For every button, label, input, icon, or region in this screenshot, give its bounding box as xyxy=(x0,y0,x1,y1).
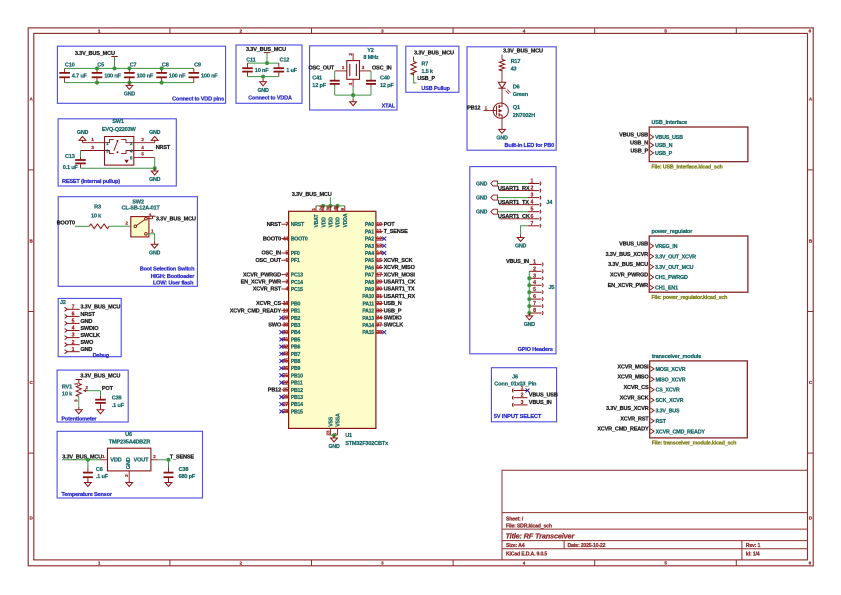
MCU pin 33 PA12 xyxy=(376,310,383,312)
svg-text:14: 14 xyxy=(376,251,382,257)
svg-text:3.3V_BUS_MCU: 3.3V_BUS_MCU xyxy=(80,374,120,380)
svg-text:4.7 uF: 4.7 uF xyxy=(72,74,88,80)
svg-text:XCVR_PWRGD: XCVR_PWRGD xyxy=(610,273,648,279)
svg-text:.1 uF: .1 uF xyxy=(96,474,109,480)
J2 pin 3 xyxy=(65,336,68,340)
svg-text:39: 39 xyxy=(283,323,289,329)
svg-text:PA1: PA1 xyxy=(365,229,374,235)
wire bottom rail (VDDA) xyxy=(248,76,279,78)
svg-text:PC14: PC14 xyxy=(291,280,303,286)
svg-text:4: 4 xyxy=(72,326,75,332)
wire MCU bottom gnd xyxy=(330,434,337,436)
svg-text:29: 29 xyxy=(376,280,382,286)
annotation box: Connect to VDDA xyxy=(236,45,302,103)
junction dot (XTAL) xyxy=(351,93,355,97)
svg-text:USB_P: USB_P xyxy=(655,151,673,157)
svg-text:PF1: PF1 xyxy=(291,258,300,264)
capacitor C41 xyxy=(334,79,336,80)
MCU pin 22 PB11 xyxy=(281,382,288,384)
sheet pin MOSI_XCVR xyxy=(651,367,655,372)
svg-text:C40: C40 xyxy=(380,75,390,81)
svg-text:HIGH: Bootloader: HIGH: Bootloader xyxy=(151,274,196,280)
svg-text:VREG_IN: VREG_IN xyxy=(655,244,678,250)
wire top rail xyxy=(65,67,194,69)
svg-text:USB_P: USB_P xyxy=(417,76,435,82)
J2 pin 6 xyxy=(65,314,68,318)
svg-text:transceiver_module: transceiver_module xyxy=(652,354,701,360)
wire crystal pin4 to rail xyxy=(352,87,354,95)
global label GND (J4 pin 5) xyxy=(491,209,498,214)
capacitor C6 xyxy=(87,460,89,468)
svg-text:XCVR_RST: XCVR_RST xyxy=(253,287,282,293)
svg-text:MISO_XCVR: MISO_XCVR xyxy=(656,377,686,383)
J4 pin 1 xyxy=(528,183,540,185)
svg-text:Green: Green xyxy=(513,92,529,98)
svg-text:100 nF: 100 nF xyxy=(169,74,186,80)
svg-text:41: 41 xyxy=(283,337,289,343)
MCU pin 45 PB8 xyxy=(281,360,288,362)
sheet pin USB_P xyxy=(650,151,654,156)
svg-text:PB7: PB7 xyxy=(291,352,301,358)
svg-text:GND: GND xyxy=(515,244,527,250)
svg-text:GND: GND xyxy=(258,88,270,94)
crystal Y2 xyxy=(347,61,360,80)
svg-text:GND: GND xyxy=(149,177,161,183)
svg-text:36: 36 xyxy=(326,205,332,210)
svg-text:PA12: PA12 xyxy=(362,309,374,315)
svg-text:XCVR_MOSI: XCVR_MOSI xyxy=(384,272,416,278)
svg-text:2: 2 xyxy=(521,393,524,399)
svg-text:GND: GND xyxy=(124,92,136,98)
svg-text:26: 26 xyxy=(283,395,289,401)
MCU bottom pin VSSA 8 xyxy=(337,428,339,435)
svg-text:40: 40 xyxy=(283,330,289,336)
MCU pin 32 PA11 xyxy=(376,302,383,304)
wire 3.3V to rail xyxy=(114,57,116,69)
crystal pin 4 xyxy=(352,79,354,87)
svg-text:XCVR_CMD_READY: XCVR_CMD_READY xyxy=(230,308,282,314)
MCU pin 26 PB13 xyxy=(281,396,288,398)
ground (C38) xyxy=(168,480,170,483)
MCU pin 41 PB5 xyxy=(281,338,288,340)
J2 pin 5 xyxy=(65,321,68,325)
svg-text:XCVR_CS: XCVR_CS xyxy=(256,301,281,307)
sheet pin MISO_XCVR xyxy=(651,377,655,382)
capacitor C8 xyxy=(161,68,163,73)
no-connect J6 pin1 xyxy=(526,389,530,393)
svg-text:2: 2 xyxy=(531,186,534,192)
svg-text:12 pF: 12 pF xyxy=(312,83,326,89)
svg-text:VDD: VDD xyxy=(329,217,335,228)
svg-text:Connect to VDDA: Connect to VDDA xyxy=(248,95,292,101)
title block xyxy=(502,470,808,560)
svg-text:SWO: SWO xyxy=(80,340,94,346)
svg-text:5V INPUT SELECT: 5V INPUT SELECT xyxy=(494,414,542,420)
svg-text:BOOT0: BOOT0 xyxy=(291,237,308,243)
svg-text:NRST: NRST xyxy=(291,222,305,228)
sheet pin CS_XCVR xyxy=(651,387,655,392)
wire MCU top power rail xyxy=(329,197,331,206)
svg-text:7: 7 xyxy=(531,221,534,227)
sheet pin SCK_XCVR xyxy=(651,398,655,403)
svg-text:SWDIO: SWDIO xyxy=(384,316,403,322)
svg-text:USB_N: USB_N xyxy=(630,141,648,147)
MCU pin 37 PA14 xyxy=(376,324,383,326)
wire R17 to LED xyxy=(501,72,503,82)
svg-text:7: 7 xyxy=(72,304,75,310)
crystal pin 2 xyxy=(352,53,354,60)
MCU pin 5 PF0 xyxy=(281,252,288,254)
MCU pin 38 PA15 xyxy=(376,331,383,333)
ground (XTAL) xyxy=(352,95,354,99)
svg-text:STM32F302CBTx: STM32F302CBTx xyxy=(345,441,389,447)
svg-text:10: 10 xyxy=(376,222,382,228)
SW1 pin 4 xyxy=(134,150,153,152)
U6 pin 1 xyxy=(101,459,108,461)
svg-text:XCVR_MOSI: XCVR_MOSI xyxy=(617,364,649,370)
J5 pin 2 xyxy=(529,270,541,272)
svg-text:15: 15 xyxy=(376,258,382,264)
svg-text:C12: C12 xyxy=(280,57,290,63)
svg-text:PA5: PA5 xyxy=(365,258,374,264)
svg-text:VDD: VDD xyxy=(321,217,327,228)
svg-text:46: 46 xyxy=(283,366,289,372)
svg-text:.1 uF: .1 uF xyxy=(112,403,125,409)
svg-text:J6: J6 xyxy=(512,374,518,380)
J6 pin 1 xyxy=(512,389,513,393)
J2 pin 7 xyxy=(65,307,68,311)
svg-text:PB1: PB1 xyxy=(291,309,301,315)
ground up-arrow left (SW1) xyxy=(82,140,84,142)
svg-text:GND: GND xyxy=(496,136,508,142)
svg-text:CL-SB-12A-01T: CL-SB-12A-01T xyxy=(122,206,161,212)
svg-text:OSC_IN: OSC_IN xyxy=(372,65,392,71)
svg-text:GND: GND xyxy=(126,457,132,469)
svg-text:XCVR_CMD_READY: XCVR_CMD_READY xyxy=(597,427,649,433)
svg-text:OSC_IN: OSC_IN xyxy=(261,251,281,257)
svg-text:USART1_RX: USART1_RX xyxy=(384,294,416,300)
global label GND (J4 pin 1) xyxy=(491,181,498,186)
svg-text:GND: GND xyxy=(476,195,488,201)
svg-text:6: 6 xyxy=(531,214,534,220)
svg-text:POT: POT xyxy=(102,386,114,392)
svg-text:T_SENSE: T_SENSE xyxy=(384,229,409,235)
wire bottom rail (XTAL) xyxy=(335,94,371,96)
svg-text:44: 44 xyxy=(283,236,289,242)
svg-text:SWCLK: SWCLK xyxy=(384,323,404,329)
J4 pin 2 xyxy=(528,190,540,192)
svg-text:PB9: PB9 xyxy=(291,366,301,372)
J2 pin 1 xyxy=(65,350,68,354)
svg-text:USB_N: USB_N xyxy=(384,301,402,307)
svg-text:SCK_XCVR: SCK_XCVR xyxy=(656,398,684,404)
J6 pin 2 xyxy=(512,396,513,400)
svg-text:2: 2 xyxy=(533,266,536,272)
capacitor C9 xyxy=(193,68,195,73)
svg-text:EN_XCVR_PWR: EN_XCVR_PWR xyxy=(241,280,282,286)
ground (SW1 bottom) xyxy=(154,168,156,171)
sheet USB_Interface xyxy=(649,127,748,162)
svg-text:43: 43 xyxy=(511,66,517,72)
svg-text:XCVR_CMD_READY: XCVR_CMD_READY xyxy=(656,429,706,435)
svg-text:PB12: PB12 xyxy=(268,388,281,394)
SW2 pin 3 to 3.3V xyxy=(147,218,152,220)
svg-text:5: 5 xyxy=(72,319,75,325)
svg-text:12 pF: 12 pF xyxy=(380,83,394,89)
MCU pin 31 PA10 xyxy=(376,295,383,297)
svg-text:XCVR_RST: XCVR_RST xyxy=(620,416,649,422)
svg-text:VDD: VDD xyxy=(336,217,342,228)
svg-text:1: 1 xyxy=(531,179,534,185)
annotation box: Potentiometer xyxy=(57,370,128,422)
sheet pin CH1_PWRGD xyxy=(650,275,654,280)
svg-text:RST: RST xyxy=(656,419,667,425)
svg-text:Potentiometer: Potentiometer xyxy=(61,417,97,423)
svg-text:6: 6 xyxy=(533,294,536,300)
svg-text:GND: GND xyxy=(80,319,92,325)
svg-text:USB_P: USB_P xyxy=(384,308,402,314)
annotation box: RESET (internal pullup) xyxy=(58,119,176,186)
J5 pin 6 xyxy=(529,298,541,300)
wire 3.3V to U6 xyxy=(62,459,100,461)
svg-text:C9: C9 xyxy=(194,63,201,69)
annotation box: Connect to VDD pins xyxy=(57,46,225,103)
svg-text:OSC_OUT: OSC_OUT xyxy=(255,258,281,264)
svg-text:PA3: PA3 xyxy=(365,244,374,250)
svg-text:25: 25 xyxy=(283,388,289,394)
ground (C6) xyxy=(87,480,89,483)
svg-text:PB8: PB8 xyxy=(291,359,301,365)
svg-text:Date: 2025-10-22: Date: 2025-10-22 xyxy=(568,543,606,549)
ground (C39) xyxy=(100,407,102,410)
svg-text:3: 3 xyxy=(533,273,536,279)
SW1 pin 3 xyxy=(81,150,105,152)
svg-text:USB_P: USB_P xyxy=(630,148,648,154)
wire BOOT0 to R3 xyxy=(75,225,90,227)
U6 pin 3 xyxy=(128,471,130,480)
transistor Q1 xyxy=(493,103,508,118)
annotation box: Temperature Sensor xyxy=(57,431,202,498)
sheet pin 3.3V_OUT_MCU xyxy=(650,264,654,269)
svg-text:Conn_01x03_Pin: Conn_01x03_Pin xyxy=(494,382,537,388)
svg-text:100 nF: 100 nF xyxy=(137,74,154,80)
MCU pin 4 PC15 xyxy=(281,288,288,290)
MCU top pin VDDA 9 xyxy=(344,206,346,211)
svg-text:6: 6 xyxy=(72,312,75,318)
resistor R3 xyxy=(89,224,109,229)
capacitor C10 xyxy=(64,68,66,73)
MCU pin 12 PA2 xyxy=(376,238,383,240)
MCU pin 46 PB9 xyxy=(281,367,288,369)
svg-text:3.3V_BUS_XCVR: 3.3V_BUS_XCVR xyxy=(606,252,649,258)
svg-text:24: 24 xyxy=(318,205,324,210)
svg-text:10 k: 10 k xyxy=(62,391,73,397)
global label GND (J4 pin 3) xyxy=(491,195,498,200)
svg-text:XCVR_PWRGD: XCVR_PWRGD xyxy=(243,272,281,278)
svg-text:VDDA: VDDA xyxy=(343,213,349,227)
svg-text:PA6: PA6 xyxy=(365,265,374,271)
MCU pin 15 PA5 xyxy=(376,259,383,261)
svg-text:3.3V_BUS_MCU: 3.3V_BUS_MCU xyxy=(156,216,196,222)
MCU pin 6 PF1 xyxy=(281,259,288,261)
svg-text:3.3V_BUS_MCU: 3.3V_BUS_MCU xyxy=(292,192,332,198)
J5 pin 3 xyxy=(529,277,541,279)
svg-text:GND: GND xyxy=(149,250,161,256)
svg-text:File: transceiver_module.kicad: File: transceiver_module.kicad_sch xyxy=(652,441,736,447)
svg-text:SWO: SWO xyxy=(268,323,282,329)
svg-text:31: 31 xyxy=(376,294,382,300)
capacitor C11 xyxy=(247,63,249,68)
LED D6 xyxy=(498,82,506,88)
MCU pin 10 PA0 xyxy=(376,223,383,225)
svg-text:PA2: PA2 xyxy=(365,237,374,243)
svg-text:5: 5 xyxy=(285,251,288,257)
annotation box: GPIO Headers xyxy=(470,167,556,354)
capacitor C7 xyxy=(128,68,130,73)
svg-text:VBUS_USB: VBUS_USB xyxy=(619,241,648,247)
svg-text:3.3V_BUS_XCVR: 3.3V_BUS_XCVR xyxy=(606,406,649,412)
svg-text:13: 13 xyxy=(376,244,382,250)
svg-text:XCVR_MISO: XCVR_MISO xyxy=(617,375,649,381)
SW1 pin 5 xyxy=(134,156,155,158)
wire J5 gnd bus xyxy=(528,271,530,313)
MCU top pin VBAT 1 xyxy=(315,206,317,211)
svg-text:XCVR_CS: XCVR_CS xyxy=(623,385,648,391)
svg-text:File: power_regulator.kicad_sc: File: power_regulator.kicad_sch xyxy=(651,295,727,301)
wire right leg xyxy=(370,71,372,80)
annotation box: Boot Selection Switch xyxy=(58,197,197,287)
svg-text:3: 3 xyxy=(72,333,75,339)
svg-text:3.3V_OUT_XCVR: 3.3V_OUT_XCVR xyxy=(655,254,696,260)
svg-text:4: 4 xyxy=(533,280,536,286)
MCU pin 16 PA6 xyxy=(376,266,383,268)
junction dots (VDD rail) xyxy=(95,66,99,70)
svg-text:2: 2 xyxy=(72,340,75,346)
MCU pin 44 BOOT0 xyxy=(281,238,288,240)
wire top rail (VDDA) xyxy=(248,62,279,64)
ground (MCU) xyxy=(333,435,335,438)
J4 pin 7 xyxy=(528,225,540,227)
MCU pin 30 PA9 xyxy=(376,288,383,290)
svg-text:U6: U6 xyxy=(125,432,132,438)
svg-text:POT: POT xyxy=(384,222,396,228)
MCU pin 18 PB0 xyxy=(281,302,288,304)
J5 pin 7 xyxy=(529,305,541,307)
svg-text:2N7002H: 2N7002H xyxy=(513,113,535,119)
svg-text:PB12: PB12 xyxy=(291,388,303,394)
wire R3 to SW2 xyxy=(109,225,131,227)
J5 pin 1 xyxy=(529,263,541,265)
svg-text:0.1 uF: 0.1 uF xyxy=(63,165,79,171)
svg-text:Boot Selection Switch: Boot Selection Switch xyxy=(140,267,195,273)
svg-text:GND: GND xyxy=(476,181,488,187)
svg-text:48: 48 xyxy=(333,205,339,210)
svg-text:34: 34 xyxy=(376,316,382,322)
svg-text:VBUS_IN: VBUS_IN xyxy=(529,400,552,406)
svg-text:3.3V_BUS_MCU: 3.3V_BUS_MCU xyxy=(503,49,543,55)
svg-text:USART1_TX: USART1_TX xyxy=(384,287,415,293)
svg-text:PB10: PB10 xyxy=(291,373,303,379)
sheet pin VREG_IN xyxy=(650,244,654,249)
svg-text:3.3V_BUS_MCU: 3.3V_BUS_MCU xyxy=(75,51,115,57)
svg-text:XTAL: XTAL xyxy=(382,103,396,109)
MCU pin 25 PB12 xyxy=(281,389,288,391)
ground (J4) xyxy=(520,235,522,238)
svg-text:TMP235A4DBZR: TMP235A4DBZR xyxy=(109,440,151,446)
capacitor C39 xyxy=(100,391,102,397)
capacitor C13 xyxy=(80,151,82,160)
MCU pin 19 PB1 xyxy=(281,310,288,312)
svg-text:USB Pullup: USB Pullup xyxy=(421,86,450,92)
svg-text:C11: C11 xyxy=(246,57,255,63)
svg-text:3.3V_BUS_MCU: 3.3V_BUS_MCU xyxy=(608,262,648,268)
J4 pin 3 xyxy=(528,197,540,199)
ground (RV1) xyxy=(78,407,80,410)
svg-text:Temperature Sensor: Temperature Sensor xyxy=(61,492,112,498)
svg-text:C13: C13 xyxy=(65,154,75,160)
svg-text:GND: GND xyxy=(149,130,161,136)
U6 pin 2 xyxy=(151,459,158,461)
svg-text:C39: C39 xyxy=(112,396,122,402)
svg-text:NRST: NRST xyxy=(267,222,282,228)
J4 pin 6 xyxy=(528,218,540,220)
svg-text:1: 1 xyxy=(521,386,524,392)
svg-text:4: 4 xyxy=(531,200,534,206)
svg-text:USB_N: USB_N xyxy=(655,143,673,149)
svg-text:3: 3 xyxy=(521,400,524,406)
svg-text:PA10: PA10 xyxy=(362,294,374,300)
svg-text:D6: D6 xyxy=(513,84,520,90)
sheet pin 3.3V_OUT_XCVR xyxy=(650,254,654,259)
MCU pin 42 PB6 xyxy=(281,346,288,348)
wire wiper to POT xyxy=(88,390,101,392)
svg-text:1: 1 xyxy=(72,347,75,353)
svg-text:MOSI_XCVR: MOSI_XCVR xyxy=(656,367,686,373)
svg-text:38: 38 xyxy=(376,330,382,336)
MCU pin 13 PA3 xyxy=(376,245,383,247)
J6 pin 3 xyxy=(512,403,513,407)
svg-text:VSSA: VSSA xyxy=(336,413,342,427)
svg-text:8: 8 xyxy=(533,308,536,314)
svg-text:27: 27 xyxy=(283,402,289,408)
crystal pin 3 xyxy=(360,70,372,72)
svg-text:Debug: Debug xyxy=(93,353,110,359)
svg-text:10 k: 10 k xyxy=(91,214,102,220)
svg-text:PB6: PB6 xyxy=(291,345,301,351)
wire 3.3V stub (VDDA) xyxy=(266,53,268,64)
ground (U6 pin3) xyxy=(128,480,130,483)
MCU pin 29 PA8 xyxy=(376,281,383,283)
svg-text:power_regulator: power_regulator xyxy=(651,229,693,235)
MCU pin 27 PB14 xyxy=(281,403,288,405)
svg-text:18: 18 xyxy=(283,301,289,307)
svg-text:PA8: PA8 xyxy=(365,280,374,286)
svg-text:USB_Interface: USB_Interface xyxy=(651,120,687,126)
svg-text:GND: GND xyxy=(80,347,92,353)
sheet pin USB_N xyxy=(650,143,654,148)
MCU pin 11 PA1 xyxy=(376,230,383,232)
svg-text:3: 3 xyxy=(285,280,288,286)
svg-text:12: 12 xyxy=(376,236,382,242)
svg-text:2: 2 xyxy=(285,272,288,278)
resistor R17 xyxy=(501,55,503,60)
svg-text:GND: GND xyxy=(77,130,89,136)
MCU pin 40 PB4 xyxy=(281,331,288,333)
svg-text:VBUS_USB: VBUS_USB xyxy=(619,132,648,138)
svg-text:PB11: PB11 xyxy=(291,381,303,387)
svg-text:1: 1 xyxy=(533,259,536,265)
sheet transceiver_module xyxy=(650,361,748,438)
